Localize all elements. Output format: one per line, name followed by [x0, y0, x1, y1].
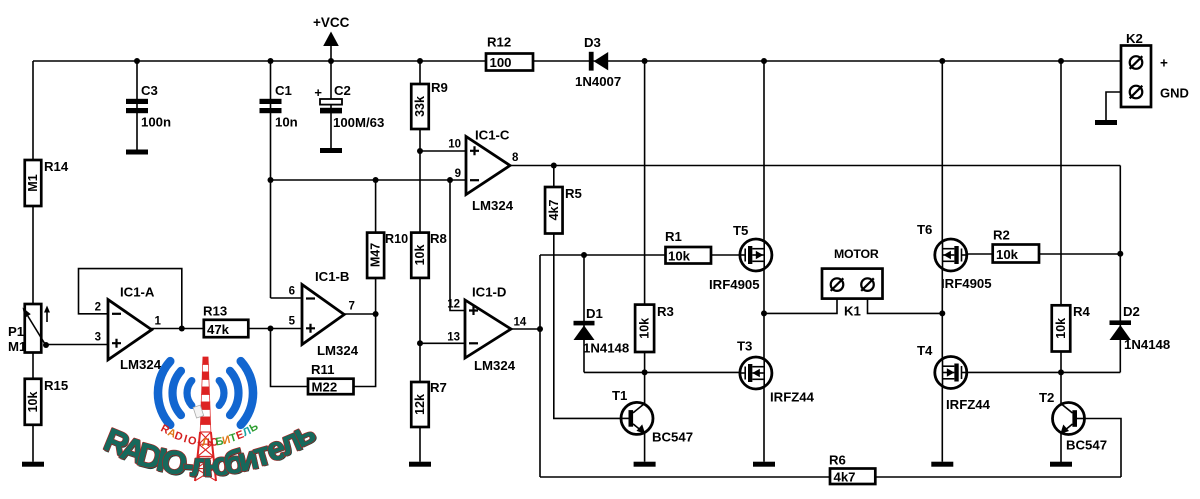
svg-text:M47: M47 — [369, 243, 383, 267]
svg-text:3: 3 — [95, 332, 101, 344]
svg-text:T3: T3 — [737, 339, 752, 354]
svg-text:10k: 10k — [413, 245, 427, 266]
svg-text:IC1-D: IC1-D — [472, 285, 506, 300]
svg-text:14: 14 — [514, 317, 527, 329]
svg-text:K1: K1 — [844, 304, 861, 319]
svg-text:1N4148: 1N4148 — [583, 341, 629, 356]
svg-text:R10: R10 — [385, 232, 408, 246]
svg-text:IRFZ44: IRFZ44 — [770, 390, 815, 405]
svg-text:R5: R5 — [565, 186, 582, 201]
svg-text:R12: R12 — [487, 35, 511, 50]
svg-text:R7: R7 — [430, 380, 447, 395]
svg-text:IC1-A: IC1-A — [120, 285, 155, 300]
svg-text:10n: 10n — [275, 115, 298, 130]
svg-text:12k: 12k — [413, 394, 427, 415]
svg-text:R4: R4 — [1073, 304, 1091, 319]
svg-text:100M/63: 100M/63 — [333, 115, 384, 130]
svg-text:100n: 100n — [141, 115, 171, 130]
svg-text:C2: C2 — [334, 83, 351, 98]
svg-text:R8: R8 — [430, 231, 447, 246]
svg-text:13: 13 — [447, 332, 460, 344]
svg-text:R13: R13 — [203, 304, 227, 319]
svg-text:1: 1 — [155, 316, 162, 328]
svg-text:D2: D2 — [1123, 304, 1140, 319]
svg-text:D3: D3 — [584, 35, 601, 50]
svg-text:C3: C3 — [141, 83, 158, 98]
svg-text:10: 10 — [448, 139, 461, 151]
svg-text:IRF4905: IRF4905 — [709, 277, 760, 292]
svg-text:LM324: LM324 — [472, 198, 514, 213]
svg-text:R11: R11 — [311, 362, 334, 377]
svg-text:R2: R2 — [993, 228, 1010, 243]
svg-text:M1: M1 — [26, 174, 40, 191]
svg-text:R1: R1 — [665, 229, 682, 244]
svg-text:5: 5 — [289, 316, 296, 328]
svg-text:10k: 10k — [668, 248, 691, 263]
svg-text:T4: T4 — [917, 343, 933, 358]
svg-text:7: 7 — [349, 301, 355, 313]
svg-text:1N4007: 1N4007 — [575, 74, 621, 89]
svg-text:100: 100 — [490, 55, 512, 70]
svg-text:GND: GND — [1160, 86, 1189, 101]
svg-text:BC547: BC547 — [652, 430, 693, 445]
svg-text:P1: P1 — [8, 324, 24, 339]
svg-text:R15: R15 — [44, 378, 68, 393]
svg-text:8: 8 — [512, 152, 519, 164]
svg-text:T5: T5 — [733, 223, 748, 238]
svg-text:2: 2 — [95, 302, 101, 314]
svg-text:47k: 47k — [207, 322, 230, 337]
svg-text:C1: C1 — [275, 83, 292, 98]
svg-text:IC1-C: IC1-C — [475, 128, 510, 143]
svg-text:D1: D1 — [586, 306, 603, 321]
svg-text:T1: T1 — [612, 388, 627, 403]
svg-text:10k: 10k — [1054, 318, 1068, 339]
svg-text:LM324: LM324 — [474, 358, 516, 373]
svg-text:33k: 33k — [413, 96, 427, 117]
svg-text:M1: M1 — [8, 339, 26, 354]
svg-text:+VCC: +VCC — [313, 15, 350, 30]
svg-text:R9: R9 — [431, 80, 448, 95]
svg-text:R3: R3 — [657, 304, 674, 319]
svg-text:T2: T2 — [1039, 390, 1054, 405]
svg-text:4k7: 4k7 — [547, 200, 561, 221]
svg-text:BC547: BC547 — [1066, 438, 1107, 453]
svg-text:+: + — [1160, 56, 1168, 71]
svg-text:IRFZ44: IRFZ44 — [946, 397, 991, 412]
svg-text:4k7: 4k7 — [834, 470, 856, 485]
svg-text:6: 6 — [289, 286, 295, 298]
svg-text:R6: R6 — [829, 453, 846, 468]
svg-text:M22: M22 — [312, 380, 338, 395]
svg-text:10k: 10k — [638, 318, 652, 339]
svg-text:IRF4905: IRF4905 — [941, 276, 992, 291]
svg-text:LM324: LM324 — [120, 357, 162, 372]
svg-text:9: 9 — [455, 168, 461, 180]
svg-text:K2: K2 — [1126, 31, 1143, 46]
svg-text:+: + — [314, 85, 322, 100]
svg-text:LM324: LM324 — [317, 343, 359, 358]
svg-text:R14: R14 — [44, 159, 69, 174]
svg-text:IC1-B: IC1-B — [315, 269, 349, 284]
svg-text:10k: 10k — [996, 247, 1019, 262]
svg-text:T6: T6 — [917, 222, 932, 237]
svg-text:10k: 10k — [26, 392, 40, 413]
svg-text:1N4148: 1N4148 — [1124, 337, 1170, 352]
svg-text:MOTOR: MOTOR — [834, 247, 879, 261]
svg-text:12: 12 — [447, 299, 460, 311]
